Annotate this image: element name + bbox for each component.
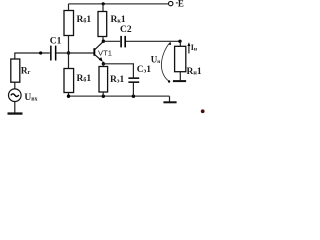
resistor Re1 [99, 67, 108, 93]
collector stroke [95, 42, 103, 50]
node rail Re [102, 95, 105, 98]
wire Rk top lead [102, 4, 104, 12]
svg-text:Rб1: Rб1 [77, 15, 92, 25]
resistor Rb1 [64, 11, 74, 36]
svg-text:Rк1: Rк1 [111, 15, 126, 25]
svg-text:Uн: Uн [151, 54, 161, 64]
wire rail end down [169, 96, 171, 101]
capacitor C1 [50, 46, 52, 61]
svg-text:C2: C2 [120, 25, 132, 35]
node collector [102, 40, 105, 43]
svg-text:C1: C1 [50, 37, 62, 47]
node rail Ce [132, 95, 135, 98]
node base junction [67, 51, 70, 54]
node rail left [67, 95, 70, 98]
svg-text:Rэ1: Rэ1 [110, 75, 124, 85]
svg-text:Rг: Rг [21, 66, 31, 76]
wire Rb1 bottom lead [68, 36, 70, 54]
node top rail Rk [102, 2, 105, 5]
wire Rb2 top lead [68, 53, 70, 69]
ground rail end [163, 101, 176, 103]
svg-text:Rб1: Rб1 [77, 74, 92, 84]
wire source to ground [14, 102, 16, 113]
terminal -E [169, 1, 173, 5]
resistor Rn1 [175, 46, 186, 71]
resistor Rk1 [98, 12, 107, 37]
base bar [93, 48, 95, 56]
wire C2 to output node [126, 40, 180, 42]
source Uvx (AC) [9, 89, 22, 102]
capacitor C2 [120, 36, 122, 48]
ground under Rn1 [173, 80, 186, 82]
wire output to Rn [179, 41, 181, 46]
svg-text:Cэ1: Cэ1 [137, 65, 151, 75]
ground left [8, 112, 23, 114]
arc Un voltage [161, 43, 170, 82]
artifact dot bottom right [201, 109, 205, 113]
label -E [176, 2, 178, 3]
wire Re bottom lead [102, 92, 104, 96]
wire Rb1 top lead [68, 4, 70, 11]
svg-text:Rн1: Rн1 [187, 67, 202, 77]
arrow In [188, 45, 190, 54]
svg-text:E: E [178, 0, 184, 9]
svg-text:Iн: Iн [191, 43, 198, 52]
wire input to C1 [14, 52, 50, 54]
wire emitter down [102, 62, 104, 64]
resistor Rb2 [64, 69, 74, 93]
wire input corner [14, 53, 16, 59]
svg-text:VT1: VT1 [98, 49, 112, 58]
svg-text:Uвх: Uвх [24, 93, 37, 103]
resistor Rg [11, 59, 20, 82]
node input dot [39, 51, 42, 54]
wire emitter to Ce corner [103, 64, 133, 78]
capacitor Ce1 [128, 77, 139, 79]
node output [178, 40, 181, 43]
wire top supply rail [69, 3, 169, 5]
wire bottom rail [69, 95, 170, 97]
emitter stroke with arrow [95, 55, 102, 61]
wire collector to C2 [103, 40, 120, 42]
node emitter [102, 62, 105, 65]
wire Rb2 bottom lead [68, 93, 70, 97]
wire Rg to source [14, 82, 16, 89]
wire C1 to base [56, 52, 93, 54]
wire Re top lead [102, 64, 104, 67]
wire Rn1 to ground [179, 72, 181, 81]
wire Rk bottom lead [102, 37, 104, 42]
wire Ce1 to rail [132, 83, 134, 96]
transistor VT1 [93, 42, 103, 62]
